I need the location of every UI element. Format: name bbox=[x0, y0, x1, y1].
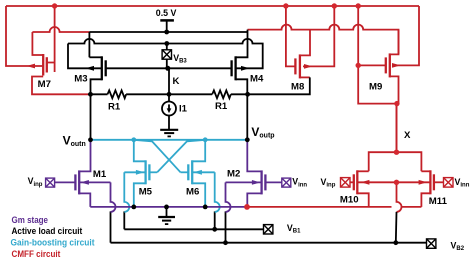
transistor M3 gate bar bbox=[105, 60, 107, 76]
wire M6 bulk descender with hump over tail bbox=[215, 172, 220, 212]
wire M8 gate riser from top rail bbox=[286, 6, 296, 66]
wire Voutp column bbox=[246, 94, 248, 140]
wire M3 drain leg bbox=[89, 56, 101, 58]
wire M5 source leg down to tail line bbox=[134, 183, 146, 207]
port Vinn (M11) bbox=[444, 178, 454, 188]
transistor M4 gate bar bbox=[230, 60, 232, 76]
node dot VB3 bus junction bbox=[164, 41, 169, 46]
node dot M6 gate / Voutn rail bbox=[131, 137, 136, 142]
node dot tail ground tap bbox=[164, 205, 169, 210]
transistor M3 channel bar bbox=[101, 56, 103, 80]
wire M7 gate riser stub bbox=[54, 63, 56, 73]
transistor M7 bulk wire bbox=[26, 65, 43, 67]
wire M3 source leg down to Voutn junction bbox=[91, 79, 102, 94]
svg-text:M1: M1 bbox=[93, 169, 107, 180]
wire M10 source leg down to CMFF tail bbox=[357, 193, 368, 207]
port Vinn (M2 input) bbox=[282, 178, 291, 187]
svg-text:I1: I1 bbox=[179, 104, 188, 115]
svg-text:R1: R1 bbox=[215, 101, 228, 112]
svg-text:M11: M11 bbox=[429, 196, 448, 207]
wire M6 bulk descender (below tail hump) bbox=[214, 211, 216, 229]
node dot gate bus / K column bbox=[165, 66, 170, 71]
current source I1 bbox=[162, 102, 176, 116]
transistor M10 gate bar bbox=[353, 174, 355, 190]
svg-text:X: X bbox=[404, 130, 411, 141]
node dot Voutp bbox=[245, 137, 250, 142]
wire M9 gate stub bbox=[358, 64, 386, 66]
wire R1 bus left segment bbox=[88, 93, 108, 95]
wire K node riser bbox=[168, 68, 170, 94]
wire M1 bulk line bbox=[79, 181, 110, 183]
transistor M5 channel bar bbox=[144, 160, 146, 184]
node dot top rail / M8 bulk bbox=[332, 3, 337, 8]
wire M7 source leg down to Voutn junction bbox=[32, 77, 88, 95]
wire VB1 bus bbox=[124, 228, 263, 230]
transistor M6 bulk arrow (points left into channel) bbox=[194, 170, 202, 175]
node dot M9 source / X junction bbox=[394, 101, 399, 106]
wire M2 bulk descender (below tail hump) bbox=[225, 211, 227, 242]
wire M5 bulk descender (below tail hump) bbox=[123, 211, 125, 229]
transistor M11 bulk arrow (points right into channel) bbox=[419, 180, 427, 185]
node X riser to M10/M11 drain bus bbox=[396, 104, 398, 153]
resistor R1 (right) bbox=[212, 90, 231, 98]
svg-text:M6: M6 bbox=[186, 187, 199, 198]
transistor M10 channel bar bbox=[356, 170, 358, 194]
wire M8 drain leg up to red supply bbox=[300, 30, 310, 56]
node dot M6 source on tail bbox=[203, 205, 208, 210]
wire M3-M4 gate bus bbox=[106, 67, 232, 69]
wire M4 source leg down to Voutp junction bbox=[236, 79, 248, 94]
wire M5 bulk descender with hump over tail bbox=[124, 172, 129, 212]
wire M6 gate cross-couple to Voutn node bbox=[181, 171, 189, 173]
node dot top rail / M7 gate bbox=[52, 3, 57, 8]
wire M7 gate riser from top rail bbox=[47, 6, 55, 63]
wire M5 drain riser bbox=[134, 140, 146, 162]
wire M1 gate from Vinp port bbox=[55, 181, 76, 183]
transistor M4 channel bar bbox=[234, 56, 236, 80]
wire M10 drain leg bbox=[357, 170, 368, 172]
transistor M10 bulk arrow (points left into channel) bbox=[361, 180, 369, 185]
svg-text:M2: M2 bbox=[227, 169, 240, 180]
wire I1 bottom stem bbox=[168, 116, 170, 130]
port VB1 bbox=[264, 225, 273, 234]
wire output rail Voutn-Voutp bbox=[91, 139, 248, 141]
svg-text:R1: R1 bbox=[108, 102, 121, 113]
wire M8 source return to Voutp junction bbox=[247, 77, 309, 94]
wire M4 drain leg up to 0.5V bus bbox=[236, 30, 248, 58]
ground (tail) bbox=[158, 216, 175, 218]
wire M11 gate to Vinn port bbox=[434, 181, 444, 183]
transistor M11 channel bar bbox=[429, 170, 431, 194]
svg-text:M5: M5 bbox=[139, 187, 153, 198]
wire M2 drain riser to Voutp bbox=[247, 140, 261, 172]
wire M7 drain leg up to CMFF wire bbox=[32, 32, 43, 55]
transistor M1 bulk arrow (points left into channel) bbox=[81, 180, 89, 185]
wire CMFF tail right segment bbox=[402, 206, 422, 208]
wire M5 bulk line bbox=[124, 171, 145, 173]
transistor M5 bulk arrow (points right into channel) bbox=[136, 170, 144, 175]
port VB2 bbox=[427, 239, 436, 248]
node dot M5 gate / Voutp rail bbox=[203, 137, 208, 142]
wire R1 bus right segment bbox=[231, 93, 248, 95]
node dot M5 source on tail bbox=[131, 205, 136, 210]
svg-text:M7: M7 bbox=[38, 79, 51, 90]
svg-text:Gain-boosting circuit: Gain-boosting circuit bbox=[11, 238, 95, 248]
wire Voutn column bbox=[90, 94, 92, 140]
port VB3 bbox=[162, 50, 171, 59]
transistor M6 gate bar bbox=[187, 164, 189, 180]
svg-text:CMFF circuit: CMFF circuit bbox=[12, 249, 61, 259]
wire M1 source leg to tail line bbox=[79, 193, 90, 207]
transistor M3 bulk arrow (points left, away from channel) bbox=[86, 66, 95, 71]
wire CMFF horizontal (M7 drain to M3 drain) with hump over gate riser bbox=[32, 27, 89, 32]
wire CMFF tail (input pair tail to M10/M11 sources) bbox=[247, 206, 392, 208]
node dot M9 gate junction bbox=[356, 63, 361, 68]
wire X-tail descender (below hump) to VB2 bus bbox=[395, 212, 398, 243]
wire VB3 bus with arcs over M3 riser and M4 riser bbox=[68, 39, 263, 68]
transistor M7 channel bar bbox=[42, 54, 44, 76]
svg-text:Gm stage: Gm stage bbox=[12, 215, 49, 225]
wire M6 source leg down to tail line bbox=[192, 183, 205, 207]
node dot X / drain bus bbox=[394, 150, 399, 155]
wire M1 drain riser to Voutn bbox=[79, 140, 90, 172]
node dot K / R1 bus bbox=[167, 92, 172, 97]
port Vinp (M10) bbox=[341, 178, 351, 188]
wire M8 bulk riser from top rail bbox=[303, 6, 334, 66]
wire 0.5V bus bbox=[89, 31, 248, 33]
transistor M2 channel bar bbox=[260, 170, 262, 194]
svg-text:Active load circuit: Active load circuit bbox=[12, 226, 83, 236]
wire VB3 jog to M3 bulk bbox=[68, 44, 102, 69]
port Vinp (M1 input) bbox=[46, 178, 55, 187]
node dot top rail / M9 gate bbox=[356, 3, 361, 8]
svg-text:M8: M8 bbox=[291, 82, 305, 93]
svg-text:M10: M10 bbox=[340, 195, 359, 206]
wire M8 source leg down bbox=[300, 76, 310, 78]
transistor M9 channel bar bbox=[389, 53, 391, 77]
svg-text:M9: M9 bbox=[369, 82, 382, 93]
svg-text:M4: M4 bbox=[250, 73, 264, 84]
wire M9 bulk from right rail bbox=[394, 6, 419, 65]
transistor M8 bulk arrow (points right, away from channel) bbox=[304, 64, 313, 69]
node dot Voutn upper junction bbox=[88, 92, 93, 97]
transistor M1 gate bar bbox=[74, 174, 76, 190]
node dot Voutp upper junction bbox=[245, 92, 250, 97]
transistor M2 gate bar bbox=[264, 174, 266, 190]
wire M3 drain riser (to CMFF wire) bbox=[88, 32, 90, 57]
node dot X-tail / VB2 bus bbox=[393, 240, 398, 245]
svg-text:K: K bbox=[173, 76, 180, 87]
wire M11 drain leg bbox=[421, 170, 430, 172]
transistor M1 channel bar bbox=[78, 170, 80, 194]
wire Gm tail line bbox=[90, 206, 247, 208]
power 0.5V supply bar bbox=[160, 19, 174, 22]
wire VB2 bus bbox=[111, 242, 427, 244]
node dot M10/M11 bulk center bbox=[394, 180, 399, 185]
transistor M8 channel bar bbox=[299, 54, 301, 78]
wire red supply extension y=29.6 (M4/M8/M9 drains) with humps bbox=[248, 25, 399, 54]
wire I1 top stem bbox=[168, 94, 170, 102]
wire supply stem bbox=[166, 21, 168, 33]
wire M10/M11 bulk descender with hump over tail bbox=[397, 182, 402, 212]
wire M9 gate riser from top rail down to X node bbox=[358, 6, 396, 152]
wire M1 bulk descender (below tail hump) bbox=[110, 211, 112, 242]
wire M6 drain riser bbox=[192, 140, 205, 162]
node dot Voutn bbox=[88, 137, 93, 142]
wire M10 gate to Vinp port bbox=[350, 181, 354, 183]
wire M6 bulk line bbox=[192, 171, 215, 173]
transistor M4 bulk arrow (points right, away from channel) bbox=[241, 66, 250, 71]
node dot M2 bulk / VB2 bus bbox=[223, 240, 228, 245]
transistor M8 gate bar bbox=[294, 58, 296, 74]
transistor M5 gate bar bbox=[148, 164, 150, 180]
node dot 0.5V supply on bus bbox=[164, 30, 169, 35]
wire top red rail (CMFF gate/bulk bus) bbox=[6, 5, 419, 7]
transistor M7 gate bar bbox=[46, 57, 48, 72]
transistor M7 bulk arrow (points left, away from channel) bbox=[27, 64, 36, 69]
node dot top rail / M8 gate bbox=[283, 3, 288, 8]
wire M1 bulk descender with hump over tail bbox=[111, 182, 116, 212]
wire R1 bus center segment bbox=[126, 93, 212, 95]
transistor M6 channel bar bbox=[191, 160, 193, 184]
transistor M2 bulk arrow (points right into channel) bbox=[252, 180, 260, 185]
node dot tail / CMFF junction bbox=[244, 204, 250, 210]
svg-text:0.5 V: 0.5 V bbox=[156, 8, 177, 19]
node dot M6 descender / VB1 bus bbox=[212, 227, 217, 232]
wire M10/M11 bulk bus bbox=[357, 181, 430, 183]
svg-text:M3: M3 bbox=[74, 73, 87, 84]
wire M2 source leg to tail junction bbox=[247, 193, 261, 207]
wire M9 source leg down to X junction bbox=[390, 76, 399, 103]
wire M2 bulk line bbox=[226, 181, 262, 183]
wire left red rail down to M7 bulk bbox=[6, 6, 26, 66]
wire M2 gate from Vinn port bbox=[265, 181, 282, 183]
transistor M9 bulk arrow (points right, away from channel) bbox=[392, 63, 401, 68]
resistor R1 (left) bbox=[108, 90, 127, 98]
wire M11 source leg down to CMFF tail bbox=[421, 193, 430, 207]
transistor M9 gate bar bbox=[385, 57, 387, 73]
wire M9 drain leg up to red supply bbox=[390, 30, 399, 55]
ground (below I1) bbox=[160, 129, 178, 131]
transistor M11 gate bar bbox=[433, 174, 435, 190]
wire M10/M11 drain bus bbox=[369, 152, 422, 171]
wire M5 gate cross-couple to Voutp node bbox=[149, 171, 157, 173]
wire VB3 port lower stem bbox=[166, 59, 168, 68]
wire M2 bulk descender with hump over tail bbox=[226, 182, 231, 212]
wire VB3 port upper stem bbox=[166, 44, 168, 50]
wire tail ground stem bbox=[166, 207, 168, 217]
